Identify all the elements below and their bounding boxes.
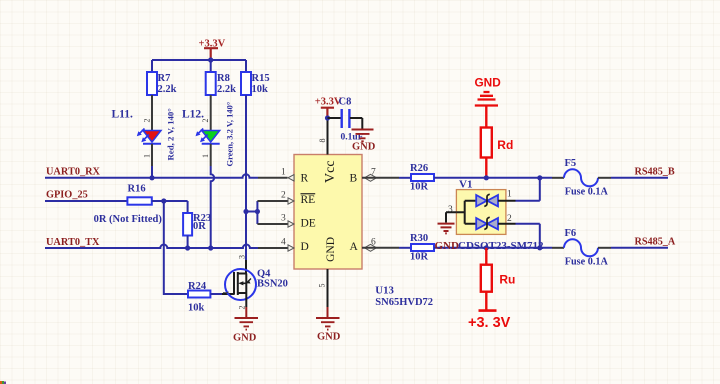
wire Q4 source to GND [245,293,247,307]
svg-text:R24: R24 [188,281,207,292]
svg-text:1: 1 [143,154,152,158]
resistor R26 [362,163,434,193]
svg-text:10k: 10k [252,84,269,95]
svg-text:1: 1 [222,291,231,295]
node R23-TX junction [185,245,190,250]
svg-text:3: 3 [281,214,286,224]
wire to RS485_B [611,177,668,179]
node RE/DE junction 2 [255,209,260,214]
corner logo fragment [0,381,6,384]
node top rail junction [208,57,213,62]
ground (red, above Rd) [475,75,502,127]
svg-text:1: 1 [201,154,210,158]
svg-text:10R: 10R [410,182,429,193]
IC U13 SN65HVD72 [294,155,362,270]
power +3.3V (top rail) [199,38,226,60]
svg-text:0R: 0R [193,221,206,232]
LED L11 (red) [112,109,162,159]
svg-text:RE: RE [301,194,316,206]
svg-text:1: 1 [281,168,286,178]
svg-text:2: 2 [507,214,512,224]
wire to RS485_A [611,247,668,249]
svg-text:GND: GND [435,240,460,252]
pin 5 (GND) [327,269,329,307]
svg-text:CDSOT23-SM712: CDSOT23-SM712 [458,240,544,252]
power +3.3V (below Ru) [468,311,511,331]
wire R15 column [245,95,247,260]
svg-text:Fuse 0.1A: Fuse 0.1A [565,187,609,198]
resistor R30 [362,233,434,263]
svg-text:R8: R8 [217,73,230,84]
wire R8 to LED L12 [210,95,212,130]
svg-text:7: 7 [371,168,376,178]
svg-text:UART0_RX: UART0_RX [46,167,101,178]
pin 2 arrow (RE) [288,198,294,204]
transistor Q4 BSN20 [222,255,288,310]
svg-text:5: 5 [318,284,327,288]
svg-text:2.2k: 2.2k [158,84,177,95]
node RE/DE junction 1 [243,209,248,214]
node R16 junction [161,198,166,203]
resistor Ru [481,248,516,311]
svg-text:R7: R7 [158,73,171,84]
svg-text:1: 1 [507,190,512,200]
svg-text:10R: 10R [410,252,429,263]
svg-text:C8: C8 [339,97,352,108]
fuse F6 [552,228,611,268]
svg-text:2: 2 [201,119,210,123]
TVS V1 CDSOT23-SM712 [448,179,544,252]
fuse F5 [552,158,611,198]
svg-text:L11.: L11. [112,109,134,121]
resistor R23 [183,213,211,236]
svg-text:Ru: Ru [499,272,515,286]
svg-text:3: 3 [448,205,453,215]
svg-text:10k: 10k [188,303,205,314]
resistor R8 [206,72,236,95]
wire R16 to R23 [152,201,188,213]
svg-text:Rd: Rd [497,138,513,152]
wire V1 pin2 branch [516,224,540,248]
wire GPIO_25 [45,200,127,202]
ground (V1 pin3) [435,224,460,252]
svg-text:D: D [301,241,309,253]
svg-text:6: 6 [371,238,376,248]
svg-text:8: 8 [318,139,327,143]
wire R23 to TX [187,236,189,249]
svg-text:GND: GND [475,75,502,89]
svg-text:R30: R30 [410,233,428,244]
svg-text:2.2k: 2.2k [217,84,236,95]
wire V1 pin1 branch [516,178,540,201]
svg-text:Green, 3.2 V, 140°: Green, 3.2 V, 140° [225,102,235,167]
pin 3 arrow (DE) [288,221,294,227]
pin 4 arrow (D) [288,245,294,251]
svg-text:UART0_TX: UART0_TX [46,237,100,248]
resistor R15 [241,72,270,95]
svg-text:R26: R26 [410,163,428,174]
resistor R24 [188,281,210,314]
svg-text:GND: GND [325,237,337,262]
svg-text:A: A [350,241,359,253]
wire UART0_TX [45,245,258,248]
wire B line [434,177,552,179]
node Vcc junction [325,115,330,120]
svg-text:Red, 2 V, 140°: Red, 2 V, 140° [166,108,176,161]
node V1 pin2 branch junction [537,245,542,250]
svg-text:+3. 3V: +3. 3V [468,315,511,331]
wire LED L12 down with hop over RX [210,144,212,166]
resistor R16 [94,184,163,226]
LED L12 (green) [182,109,220,159]
capacitor C8 [328,97,364,143]
svg-text:2: 2 [143,119,152,123]
svg-text:GND: GND [233,333,257,344]
wire A line [434,247,552,249]
svg-text:B: B [350,172,358,184]
resistor Rd [481,128,514,178]
svg-text:RS485_A: RS485_A [635,237,676,248]
svg-text:F5: F5 [565,158,577,169]
svg-text:F6: F6 [565,228,577,239]
svg-text:GND: GND [352,142,376,153]
ground (pin 5) [316,307,341,342]
wire LED L11 to RX [151,144,153,166]
svg-text:2: 2 [238,306,247,310]
svg-text:GND: GND [317,331,341,342]
svg-text:R15: R15 [252,73,270,84]
node Rd-B junction [484,175,489,180]
svg-text:3: 3 [238,255,247,259]
wire V1 pin3 to GND [446,212,456,222]
svg-text:Vcc: Vcc [323,160,338,183]
svg-text:BSN20: BSN20 [257,279,288,290]
wire top rail [152,60,246,72]
wire UART0_RX [45,174,258,177]
svg-text:V1: V1 [459,179,472,191]
ground (C8) [352,130,376,153]
node Ru-A junction [484,245,489,250]
svg-text:GPIO_25: GPIO_25 [46,190,88,201]
pin 8 (Vcc) [327,118,329,155]
pin 7 diamond (B) [365,174,377,181]
wire RE/DE branch [246,201,257,224]
svg-text:SN65HVD72: SN65HVD72 [375,297,433,308]
svg-text:R: R [301,172,309,184]
ground (Q4) [233,318,258,344]
node L11-RX junction [149,175,154,180]
svg-text:U13: U13 [375,284,394,296]
power +3.3V (at C8) [315,97,342,118]
resistor R7 [147,72,177,95]
node V1 pin1 branch junction [537,175,542,180]
svg-text:0R (Not Fitted): 0R (Not Fitted) [94,214,163,225]
svg-text:Fuse 0.1A: Fuse 0.1A [565,257,609,268]
svg-text:RS485_B: RS485_B [635,167,675,178]
node L12-TX junction [208,245,213,250]
pin 1 arrow (R) [288,175,294,181]
svg-text:4: 4 [281,238,286,248]
svg-text:DE: DE [301,218,316,230]
wire R7 to LED L11 [151,95,153,130]
svg-text:R16: R16 [128,184,146,195]
wire R24 to Q4 gate [210,293,222,295]
svg-text:2: 2 [281,191,286,201]
wire GPIO vertical to R24 [164,201,188,294]
pin 6 diamond (A) [365,244,377,251]
